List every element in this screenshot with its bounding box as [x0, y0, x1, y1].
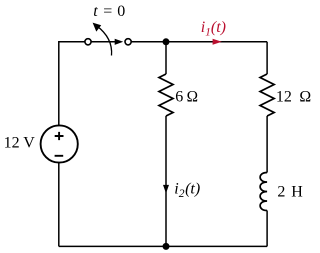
- svg-text:12Ω: 12Ω: [276, 89, 311, 106]
- node: bottom junction dot: [163, 243, 170, 250]
- current arrow i2 (down): [163, 185, 169, 194]
- wire: between 12-ohm resistor and inductor: [266, 116, 268, 173]
- wire: top-left segment and left side upper: [59, 42, 85, 126]
- switch motion arrowhead: [93, 23, 102, 32]
- switch blade arrowhead: [115, 39, 124, 45]
- wire: switch blade line: [91, 41, 116, 43]
- svg-text:6Ω: 6Ω: [175, 89, 198, 106]
- switch motion arc: [97, 26, 112, 56]
- wire: middle branch upper (top node to 6-ohm resistor): [165, 42, 167, 74]
- source plus sign: [55, 132, 64, 140]
- wire: middle branch lower (6-ohm resistor to bottom node): [165, 116, 167, 246]
- current arrow i1 (red): [213, 39, 222, 45]
- svg-text:i2(t): i2(t): [174, 180, 200, 200]
- source V1 12V circle: [41, 125, 78, 162]
- switch left terminal: [85, 39, 91, 45]
- wire: right branch upper (corner to 12-ohm resistor): [266, 42, 268, 74]
- wire: bottom rail: [59, 245, 267, 247]
- svg-text:i1(t): i1(t): [201, 19, 226, 39]
- resistor R 6ohm zigzag: [159, 74, 173, 116]
- source minus sign: [55, 155, 64, 157]
- wire: top rail from switch right terminal to top-right corner: [131, 41, 267, 43]
- node: top junction dot: [163, 38, 170, 45]
- wire: left side lower to bottom-left corner: [58, 163, 60, 247]
- svg-text:t=0: t=0: [93, 3, 125, 20]
- svg-text:12 V: 12 V: [4, 134, 36, 151]
- wire: inductor to bottom-right corner: [266, 211, 268, 247]
- svg-text:2H: 2H: [277, 184, 303, 201]
- switch right terminal: [125, 39, 131, 45]
- inductor L 2H coil: [260, 173, 267, 211]
- resistor R 12ohm zigzag: [260, 74, 274, 116]
